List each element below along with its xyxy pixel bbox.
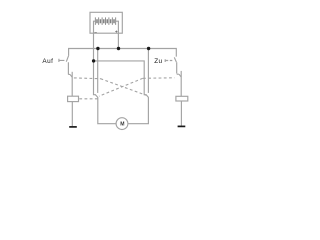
switch blade Zu pushbutton bbox=[174, 57, 176, 62]
svg-text:M: M bbox=[120, 122, 124, 128]
actuator Zu pushbutton bbox=[165, 59, 172, 62]
ground right bbox=[178, 125, 186, 127]
node junction dot bus-left contact bbox=[96, 47, 99, 50]
switch blade Auf pushbutton bbox=[66, 56, 68, 62]
switch blade left NC limit contact bbox=[70, 74, 72, 77]
mech link right NC horizontal bbox=[143, 77, 175, 80]
wire Zu to NC limit contact bbox=[177, 62, 179, 74]
wire battery minus lead bbox=[94, 21, 96, 61]
wire left common to motor bbox=[98, 97, 116, 124]
mech link coil K1 to left changeover bbox=[79, 98, 98, 100]
wire coil K2 to ground bbox=[180, 101, 182, 126]
wire coil K1 to ground bbox=[71, 102, 73, 127]
node junction dot rail-battery minus bbox=[92, 59, 95, 62]
mech link diagonal to left changeover bbox=[99, 78, 143, 96]
ground left bbox=[69, 126, 77, 128]
svg-text:+: + bbox=[115, 30, 118, 36]
wire right common to motor bbox=[128, 97, 148, 124]
actuator Auf pushbutton bbox=[59, 59, 65, 62]
svg-text:Zu: Zu bbox=[154, 58, 162, 65]
wire right NC to coil K2 bbox=[180, 71, 182, 96]
switch blade right changeover S2 bbox=[146, 94, 149, 97]
battery cells short plates bbox=[97, 19, 114, 23]
wire bus to right contact of right changeover bbox=[147, 49, 149, 93]
mech link diagonal to right changeover bbox=[101, 79, 147, 96]
wire bus to right contact of left changeover bbox=[97, 49, 99, 93]
switch blade left changeover S1 bbox=[95, 94, 98, 97]
wire top bus with corner drops bbox=[69, 49, 177, 57]
battery box B1 bbox=[90, 12, 122, 33]
node junction dot bus-battery plus bbox=[117, 47, 120, 50]
wire left NC to coil K1 bbox=[71, 72, 73, 96]
svg-text:Auf: Auf bbox=[42, 58, 53, 65]
svg-text:−: − bbox=[94, 30, 97, 36]
battery cells long plates bbox=[95, 17, 115, 25]
switch blade right NC limit contact bbox=[179, 74, 181, 77]
mech link left NC horizontal bbox=[74, 77, 101, 80]
wire left contact of left changeover with foot bbox=[94, 61, 96, 95]
motor M circle bbox=[116, 118, 128, 130]
coil K2 rectangle bbox=[176, 96, 188, 101]
node junction dot bus-right contact bbox=[147, 47, 150, 50]
coil K1 rectangle bbox=[68, 96, 79, 101]
wire battery plus lead bbox=[116, 21, 119, 48]
wire Auf to NC limit contact bbox=[68, 62, 70, 74]
wire negative rail to right contact with foot bbox=[94, 61, 147, 95]
